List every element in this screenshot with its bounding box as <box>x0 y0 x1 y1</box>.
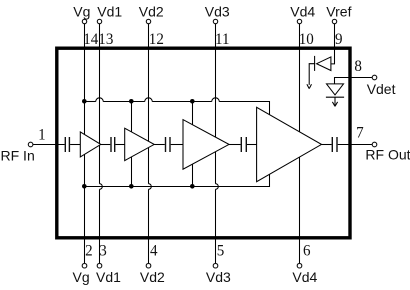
wire A3 to C4 <box>229 144 241 146</box>
bias drop to stage 2 <box>131 102 133 187</box>
amplifier stage A3 <box>183 120 229 170</box>
wire A2 to C3 <box>154 144 165 146</box>
coupling capacitor C4 <box>241 137 247 152</box>
wire hop over x=148.5 <box>145 98 152 102</box>
svg-text:Vd3: Vd3 <box>205 3 230 19</box>
terminal circle pin 3 <box>97 263 102 268</box>
terminal circle pin 7 RF Out <box>372 142 377 147</box>
terminal circle pin 9 <box>332 19 336 23</box>
svg-text:Vref: Vref <box>326 3 351 19</box>
svg-text:Vd3: Vd3 <box>206 269 231 285</box>
svg-text:RF In: RF In <box>1 148 35 164</box>
terminal circle pin 1 RF In <box>28 142 33 147</box>
svg-text:3: 3 <box>99 242 107 260</box>
terminal circle pin 2 <box>82 263 87 268</box>
amplifier stage A2 <box>125 128 155 160</box>
terminal circle pin 6 <box>297 263 302 268</box>
svg-text:1: 1 <box>38 126 46 144</box>
detector diode D2 <box>326 84 344 105</box>
wire C3 to A3 <box>171 144 183 146</box>
wire C4 to A4 <box>247 144 257 146</box>
svg-text:14: 14 <box>83 31 98 49</box>
pin 10 Vd4 vertical line <box>299 24 301 264</box>
svg-text:Vd2: Vd2 <box>140 269 165 285</box>
svg-text:Vd1: Vd1 <box>96 269 121 285</box>
package outline box <box>57 48 350 238</box>
svg-text:Vd4: Vd4 <box>290 3 315 19</box>
D1 arrow head <box>307 84 312 88</box>
bias drop to stage 3 <box>192 102 194 187</box>
svg-text:11: 11 <box>215 31 229 49</box>
svg-text:Vd4: Vd4 <box>292 269 317 285</box>
wire hop over x=215.5 <box>212 98 219 102</box>
terminal circle pin 4 <box>146 263 151 268</box>
Vdet pin 8 lead <box>335 78 373 84</box>
svg-text:9: 9 <box>335 31 343 49</box>
pin 9 Vref vertical line <box>331 24 335 64</box>
bias drop to stage 4 (bus end turn) <box>269 101 271 187</box>
wire C2 to A2 <box>115 144 124 146</box>
wire C1 to A1 <box>70 144 80 146</box>
D2 arrow head <box>332 102 337 107</box>
svg-text:Vg: Vg <box>73 3 90 19</box>
junction dots <box>82 99 87 104</box>
svg-text:Vdet: Vdet <box>367 81 396 97</box>
svg-text:13: 13 <box>98 31 113 49</box>
svg-text:2: 2 <box>85 242 93 260</box>
detector diode D1 <box>309 56 331 85</box>
pin 12 Vd2 vertical line with hop over bottom bus <box>149 24 152 264</box>
pin 14 Vg vertical line <box>84 24 86 264</box>
bottom gate-bias bus <box>85 186 270 188</box>
terminal circle pin 5 <box>213 263 218 268</box>
terminal circle pin 13 <box>97 19 101 23</box>
amplifier stage A1 <box>80 132 101 157</box>
terminal circle pin 11 <box>213 19 217 23</box>
terminal circle pin 10 <box>297 19 301 23</box>
coupling capacitor C2 <box>110 137 115 152</box>
svg-text:6: 6 <box>303 242 311 260</box>
svg-text:8: 8 <box>354 57 362 75</box>
terminal circle pin 12 <box>146 19 150 23</box>
wire A4 to C5 <box>322 144 332 146</box>
top gate-bias bus <box>85 101 270 103</box>
coupling capacitor C1 <box>65 137 71 152</box>
pin 11 Vd3 vertical line with hop over bottom bus <box>216 24 219 264</box>
coupling capacitor C5 <box>332 137 338 152</box>
RF output lead <box>338 144 373 146</box>
svg-text:5: 5 <box>217 242 225 260</box>
svg-text:RF Out: RF Out <box>365 147 410 163</box>
terminal circle pin 8 Vdet <box>372 75 377 80</box>
svg-text:7: 7 <box>356 124 364 142</box>
svg-text:Vd2: Vd2 <box>139 3 164 19</box>
amplifier stage A4 <box>257 107 322 181</box>
svg-text:4: 4 <box>150 242 158 260</box>
RF input lead <box>33 144 65 146</box>
wire hop over x=99.5 <box>96 98 103 102</box>
coupling capacitor C3 <box>165 137 171 152</box>
wire A1 to C2 <box>101 144 111 146</box>
svg-text:Vg: Vg <box>73 269 90 285</box>
pin 13 Vd1 vertical line with hop over bottom bus <box>100 24 103 264</box>
svg-text:10: 10 <box>299 31 314 49</box>
svg-text:Vd1: Vd1 <box>97 3 122 19</box>
svg-text:12: 12 <box>149 31 164 49</box>
terminal circle pin 14 <box>82 19 86 23</box>
